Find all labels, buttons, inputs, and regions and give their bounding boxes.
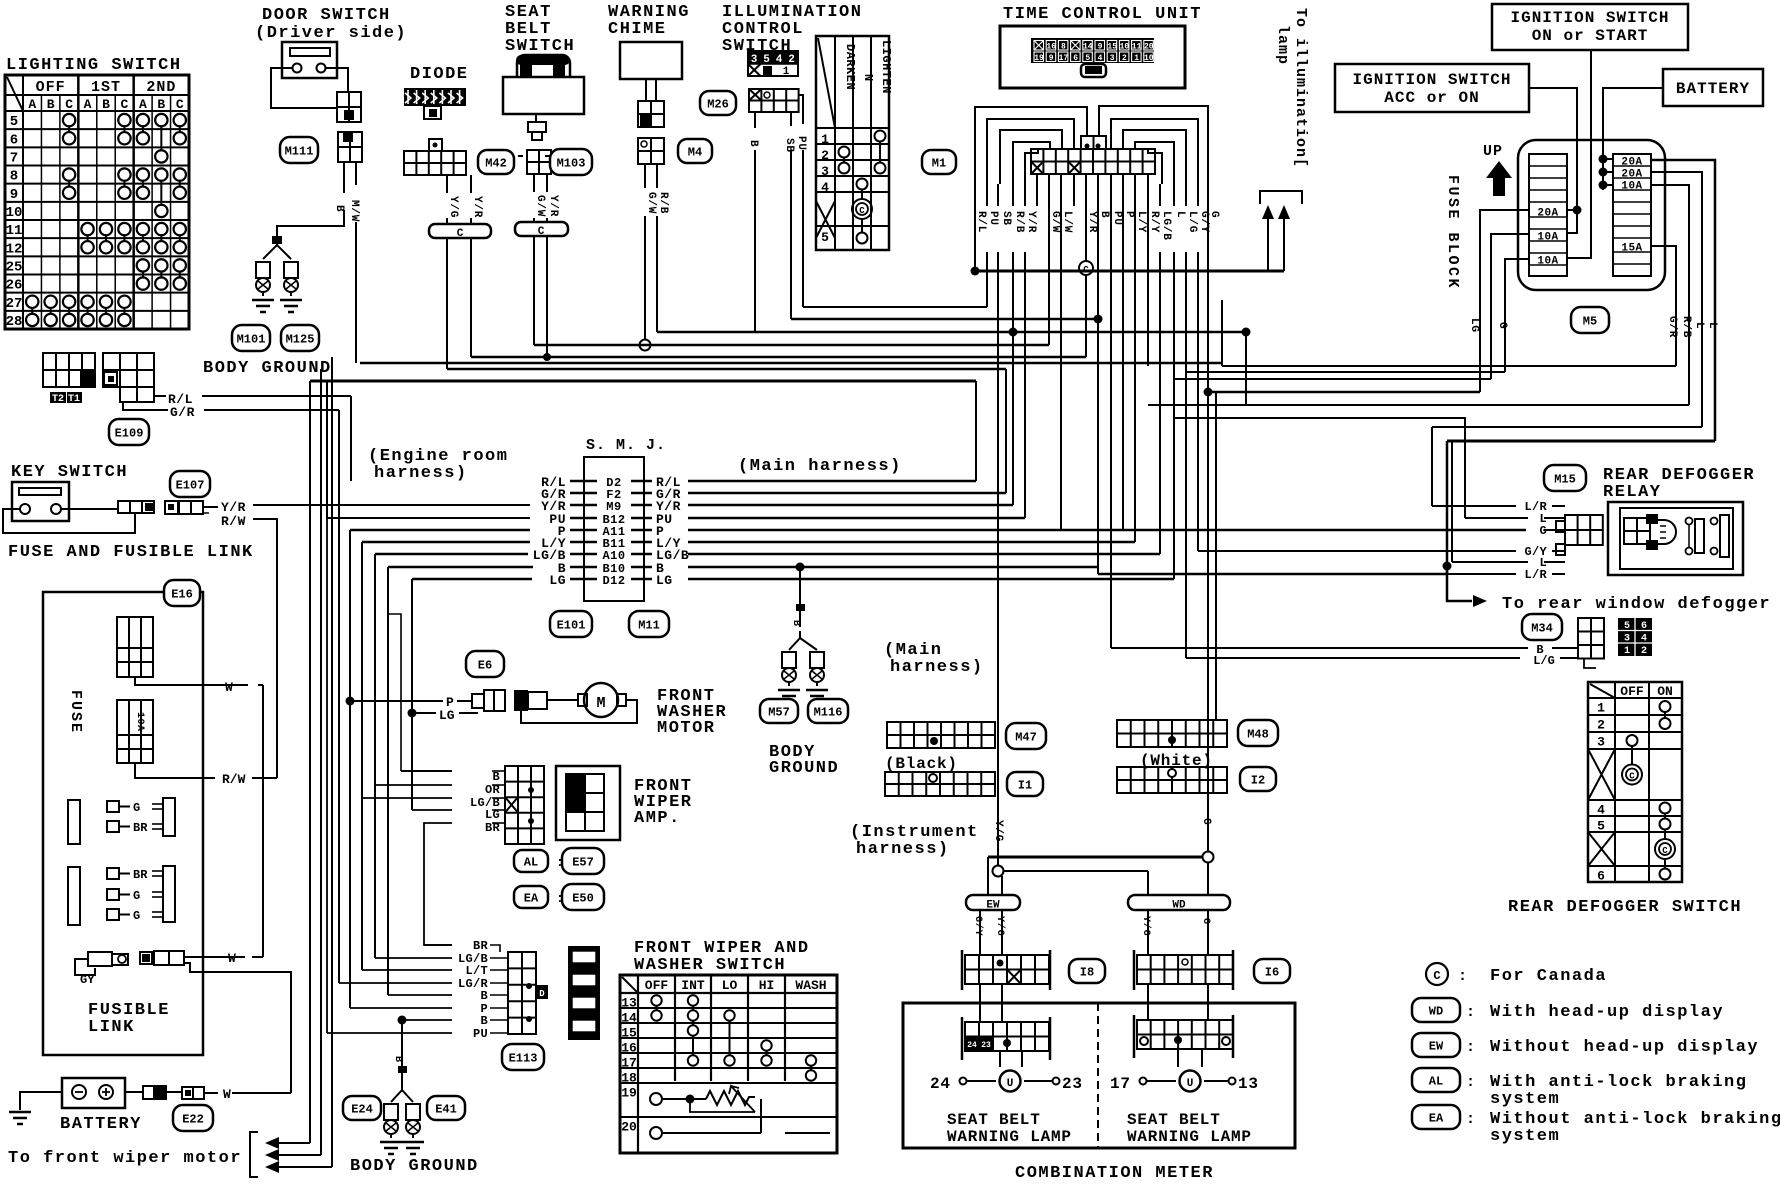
svg-text:20A: 20A	[1621, 169, 1642, 181]
illumination table	[816, 36, 889, 250]
svg-text:2: 2	[1597, 718, 1605, 733]
wire L relay	[1465, 517, 1528, 519]
svg-text:N: N	[861, 74, 875, 82]
svg-text:20: 20	[1144, 43, 1154, 52]
wire B run	[1097, 206, 1099, 567]
svg-text:DOOR SWITCH: DOOR SWITCH	[262, 6, 391, 25]
svg-text:EA: EA	[1429, 1111, 1444, 1125]
svg-text:M/W: M/W	[348, 200, 360, 222]
svg-text:lamp: lamp	[1274, 25, 1291, 65]
svg-text:3: 3	[1624, 634, 1630, 645]
svg-text:E109: E109	[115, 426, 144, 440]
legend WD	[1412, 998, 1460, 1022]
svg-text:IGNITION SWITCH: IGNITION SWITCH	[1510, 9, 1669, 27]
wire W vertical	[262, 685, 264, 957]
wire bracket left 3	[1013, 142, 1050, 184]
meter connector left	[961, 1017, 964, 1060]
wire S.M.J. right	[688, 504, 1013, 506]
TCU pin stubs	[1036, 174, 1038, 206]
wiper switch links	[656, 1006, 658, 1011]
wire L relay 2	[1452, 561, 1528, 563]
wire L run	[1173, 184, 1175, 206]
wire B bus y332	[657, 331, 1246, 333]
svg-text:RELAY: RELAY	[1603, 483, 1662, 502]
svg-text:6: 6	[1641, 621, 1647, 632]
door switch	[282, 42, 337, 78]
svg-text:G: G	[133, 889, 140, 903]
legend EA	[1412, 1105, 1460, 1129]
svg-text:16: 16	[621, 1041, 637, 1056]
svg-text:26: 26	[6, 278, 23, 294]
svg-text:4: 4	[821, 180, 829, 195]
svg-text:D: D	[539, 989, 545, 999]
svg-text:C: C	[1629, 772, 1635, 782]
svg-text:LG/B: LG/B	[1160, 211, 1172, 241]
svg-text:TIME CONTROL UNIT: TIME CONTROL UNIT	[1003, 5, 1202, 24]
svg-text:5: 5	[10, 114, 18, 130]
seat belt switch stem	[535, 114, 537, 122]
svg-text:LG: LG	[656, 573, 673, 588]
svg-text:L/W: L/W	[1061, 211, 1073, 233]
wire EW stubs	[987, 857, 989, 895]
svg-text:11: 11	[1132, 43, 1142, 52]
svg-text:C: C	[1433, 969, 1440, 983]
wire G run long	[1207, 106, 1209, 206]
wire B (illum)	[754, 112, 756, 128]
wire R/L run	[974, 107, 976, 206]
M34 pin block	[1618, 618, 1652, 656]
M34 connector	[1578, 618, 1604, 659]
svg-text:SWITCH: SWITCH	[505, 37, 575, 56]
svg-text:HI: HI	[759, 978, 775, 993]
wire Y/R (M103)	[546, 174, 548, 192]
wires I8 to meter	[979, 984, 981, 1022]
svg-text:M9: M9	[606, 500, 621, 514]
svg-text:9: 9	[1098, 43, 1103, 52]
oval M125	[281, 325, 319, 351]
wire battery down	[1603, 88, 1663, 157]
wiper amp connector	[505, 766, 544, 844]
wire Y/G bus y369	[447, 368, 1006, 370]
oval M48	[1238, 720, 1278, 746]
svg-text:PU: PU	[473, 1027, 488, 1041]
wire Y/R run 2	[1085, 206, 1087, 261]
wire ignition ON/START down	[1567, 50, 1591, 258]
svg-text:harness): harness)	[374, 464, 468, 483]
svg-text:E113: E113	[509, 1051, 538, 1065]
fuse column left	[1529, 154, 1567, 276]
key switch connector	[118, 501, 154, 513]
svg-text:BODY GROUND: BODY GROUND	[350, 1157, 479, 1176]
WD pill	[1128, 895, 1230, 910]
wire R/W from fuse	[135, 763, 215, 778]
svg-text:B: B	[102, 97, 110, 112]
wiper switch row19 resistor	[650, 1093, 662, 1105]
svg-text:C: C	[859, 206, 865, 216]
wire y871	[993, 866, 1004, 877]
TCU connector upper small	[1081, 136, 1106, 149]
wire R/Y run	[1147, 206, 1149, 366]
svg-text:20A: 20A	[1621, 157, 1642, 169]
svg-text:FUSE: FUSE	[67, 690, 84, 734]
svg-text:SEAT BELT: SEAT BELT	[1127, 1111, 1221, 1129]
svg-text:2ND: 2ND	[146, 79, 176, 96]
wire L/G run	[1185, 184, 1187, 206]
warning chime box	[620, 42, 682, 79]
svg-text:SEAT BELT: SEAT BELT	[947, 1111, 1041, 1129]
svg-text:BR: BR	[133, 821, 148, 835]
illumination switch connector 1	[748, 51, 798, 64]
wire bracket left 1	[987, 119, 1074, 184]
connector M48	[1117, 720, 1227, 747]
svg-text:G/Y: G/Y	[972, 916, 984, 936]
oval M111	[280, 137, 318, 163]
wire key switch to connector	[61, 508, 118, 510]
oval M47	[1006, 723, 1046, 749]
svg-text:24: 24	[930, 1075, 951, 1093]
battery box	[62, 1078, 125, 1108]
wire Y/R from E107	[253, 504, 530, 506]
svg-text:Y/R: Y/R	[547, 195, 559, 217]
svg-text:D12: D12	[602, 574, 625, 588]
svg-text::: :	[1466, 1111, 1475, 1128]
oval E6	[466, 651, 504, 677]
wires WD to I6	[1147, 910, 1149, 955]
svg-text::: :	[1466, 1074, 1475, 1091]
svg-text:I8: I8	[1080, 965, 1094, 979]
wire TCU center left	[975, 107, 1087, 271]
AL E57 ovals	[514, 850, 548, 872]
wire P run	[1122, 206, 1124, 530]
svg-text:(Main harness): (Main harness)	[738, 457, 902, 476]
wire G relay	[1544, 529, 1565, 531]
wire bracket right 1	[1111, 119, 1198, 184]
svg-text:12: 12	[6, 241, 23, 257]
oval M116	[808, 699, 848, 723]
wire relay L bus y427	[1432, 426, 1702, 428]
svg-text:1: 1	[783, 66, 790, 78]
connector I6	[1133, 950, 1136, 990]
wire LG/B left	[375, 553, 528, 555]
connector M47	[887, 722, 995, 748]
wire R/B (chime)	[656, 164, 658, 188]
wire bus y381 thick	[310, 380, 976, 383]
wire Y/R run 2b	[1085, 275, 1087, 357]
svg-text:G: G	[1200, 918, 1211, 925]
connector W out	[140, 952, 152, 964]
svg-text:11: 11	[6, 223, 23, 239]
ignition switch ACC box	[1335, 64, 1529, 112]
wires EW to I8	[979, 910, 981, 955]
svg-text:4: 4	[1098, 54, 1103, 63]
svg-text:LO: LO	[722, 978, 738, 993]
svg-text:B: B	[480, 989, 488, 1003]
wire M/W	[355, 162, 357, 185]
svg-text:20A: 20A	[1537, 208, 1558, 220]
svg-text:LG: LG	[1468, 318, 1480, 333]
svg-text:I2: I2	[1251, 773, 1265, 787]
wire to rear window defogger	[1447, 566, 1472, 601]
body ground split M57/M116	[789, 631, 800, 650]
wire B to L/R bottom	[1097, 567, 1099, 574]
svg-text:2: 2	[1122, 54, 1127, 63]
svg-text:Y/G: Y/G	[1140, 916, 1152, 936]
svg-text:AL: AL	[1429, 1074, 1443, 1088]
wire G fuse bus y372	[1186, 371, 1505, 373]
E113 label stubs	[490, 957, 508, 959]
svg-text:M57: M57	[768, 705, 790, 719]
oval I2	[1240, 767, 1276, 791]
svg-text:PU: PU	[1111, 211, 1123, 226]
label C circle on Y/R	[1079, 261, 1093, 275]
wire PU run 2	[1110, 206, 1112, 648]
wire 20A#2 to L	[1651, 172, 1702, 427]
wire G/Y relay	[1552, 550, 1565, 552]
oval E41	[427, 1096, 465, 1120]
svg-text:IGNITION SWITCH: IGNITION SWITCH	[1352, 71, 1511, 89]
svg-text:10: 10	[6, 205, 23, 221]
wire G/R riser x1222	[1221, 300, 1223, 366]
wire S.M.J. right	[688, 529, 1526, 531]
svg-text:M: M	[596, 695, 605, 712]
connector C pill (M42)	[429, 224, 491, 238]
meter connector right	[1133, 1015, 1136, 1058]
svg-text:M101: M101	[237, 332, 266, 346]
legend AL	[1412, 1068, 1460, 1092]
svg-text:E50: E50	[572, 891, 594, 905]
svg-text:KEY SWITCH: KEY SWITCH	[11, 463, 128, 482]
svg-text:E57: E57	[572, 855, 594, 869]
wire to illumination lamp 2	[1278, 205, 1290, 219]
wire G/R to SMJ	[123, 402, 168, 410]
wire LG fuse bus y392	[1208, 391, 1480, 394]
connector T2/T1	[43, 353, 95, 387]
wire L/G to M34	[1186, 657, 1520, 659]
svg-text:B: B	[1098, 211, 1110, 218]
svg-text:P: P	[1123, 211, 1135, 218]
svg-text:6: 6	[10, 132, 18, 148]
wire LG/R E113	[339, 982, 452, 984]
oval E24	[343, 1096, 381, 1120]
svg-text:1ST: 1ST	[91, 79, 121, 96]
wire B to body ground	[343, 162, 345, 193]
washer plug	[514, 690, 528, 711]
svg-text:EA: EA	[524, 891, 539, 905]
oval I8	[1069, 959, 1105, 983]
wiper switch circles	[651, 995, 661, 1005]
svg-text:7: 7	[10, 151, 18, 167]
wire P E113	[350, 1007, 452, 1009]
TCU main connector	[1031, 149, 1155, 174]
svg-text:8: 8	[1061, 43, 1066, 52]
wire bracket right 3	[1135, 142, 1174, 184]
svg-text:Y/R: Y/R	[1025, 211, 1037, 233]
svg-text:OFF: OFF	[36, 79, 66, 96]
svg-text:M15: M15	[1554, 472, 1576, 486]
wire bracket left 2	[1000, 130, 1062, 184]
svg-text:Y/R: Y/R	[221, 500, 246, 515]
oval M42	[478, 150, 514, 174]
key switch box	[12, 482, 69, 521]
svg-text:ON: ON	[1657, 684, 1673, 699]
wire Y/R down	[470, 238, 472, 357]
wire SB run	[997, 184, 999, 206]
wire B E113 2	[402, 1019, 452, 1021]
svg-text:10A: 10A	[134, 712, 145, 732]
wire W out 2	[184, 963, 291, 1093]
svg-text:ON or START: ON or START	[1532, 27, 1649, 45]
svg-text:WASHER SWITCH: WASHER SWITCH	[634, 956, 786, 975]
wire S.M.J. right	[688, 553, 1160, 555]
svg-text:M26: M26	[707, 97, 729, 111]
svg-text:B: B	[480, 1014, 488, 1028]
battery ground	[20, 1092, 62, 1110]
wire S.M.J. right	[688, 517, 1025, 519]
wire G fuse bus y379	[1174, 378, 1491, 380]
svg-text:system: system	[1490, 1127, 1560, 1146]
warning chime connector 2	[638, 138, 664, 164]
wire L/R relay top	[1431, 427, 1433, 506]
svg-text:M125: M125	[286, 332, 315, 346]
wire G down2	[1505, 259, 1528, 372]
wire Y/R down to junction	[546, 236, 548, 357]
E113 connector grid	[508, 952, 536, 1034]
wiper switch row20	[650, 1127, 662, 1139]
wire W from fuse	[135, 677, 248, 685]
svg-text:harness): harness)	[856, 840, 950, 859]
wire M/W bus y363	[360, 362, 1222, 365]
svg-text:G/W: G/W	[645, 192, 657, 214]
wire WD stubs	[1147, 871, 1149, 895]
wire L/Y left	[362, 541, 530, 543]
wire bracket left 4	[1025, 149, 1038, 184]
wire ACC to 10A	[1573, 206, 1582, 215]
svg-text:L: L	[1693, 322, 1705, 329]
wire LG to motor	[408, 709, 417, 718]
svg-text:R/B: R/B	[657, 192, 669, 214]
relay connector	[1565, 515, 1603, 545]
wiper amp box	[556, 766, 620, 840]
svg-text:10A: 10A	[1537, 256, 1558, 268]
svg-text:10A: 10A	[1621, 181, 1642, 193]
svg-text:For Canada: For Canada	[1490, 967, 1607, 986]
connector I1	[885, 772, 995, 796]
svg-text:16: 16	[1046, 43, 1056, 52]
time control unit box	[1000, 26, 1185, 88]
connector E107	[165, 501, 178, 514]
wire G/W run	[1048, 206, 1050, 345]
oval M57	[760, 699, 798, 723]
lighting switch table	[5, 75, 189, 329]
svg-text:L: L	[1706, 322, 1718, 329]
svg-text:G/W: G/W	[1049, 211, 1061, 233]
svg-text:U: U	[1007, 1078, 1014, 1090]
wire to front wiper motor 1	[265, 1137, 279, 1149]
wire B E113	[388, 994, 452, 996]
svg-text:Y/R: Y/R	[1086, 211, 1098, 233]
fuse 10A	[117, 700, 153, 763]
svg-text:19: 19	[1034, 54, 1044, 63]
svg-text:harness): harness)	[890, 658, 984, 677]
svg-text:SB: SB	[1000, 211, 1012, 226]
svg-text:T1: T1	[68, 394, 80, 405]
legend EW	[1412, 1033, 1460, 1057]
fusible link GY	[88, 952, 112, 966]
oval E113	[502, 1044, 544, 1070]
svg-text:M111: M111	[285, 144, 314, 158]
fuse box outline	[43, 592, 203, 1055]
svg-text:2: 2	[1641, 646, 1647, 657]
connector M42	[429, 139, 442, 151]
wire Y/R bus y357	[471, 356, 1086, 358]
svg-text:3: 3	[821, 164, 829, 179]
svg-text:M5: M5	[1583, 314, 1597, 328]
oval M4	[678, 139, 712, 163]
washer motor loop	[521, 700, 637, 723]
wire Y/G down	[446, 238, 448, 369]
svg-text:DARKEN: DARKEN	[843, 44, 857, 90]
svg-text:R/B: R/B	[1680, 316, 1692, 338]
wire S.M.J. right	[688, 541, 1135, 543]
wire S.M.J. right	[688, 480, 976, 482]
svg-text:BATTERY: BATTERY	[1676, 80, 1750, 98]
svg-text:17: 17	[1110, 1075, 1131, 1093]
svg-text:24: 24	[967, 1041, 977, 1050]
washer connector	[472, 694, 484, 708]
wire G/R fuse bus y366	[1222, 365, 1676, 367]
svg-text:UP: UP	[1483, 143, 1503, 160]
warning chime stem	[645, 79, 647, 101]
svg-text:INT: INT	[681, 978, 705, 993]
svg-text:A: A	[28, 97, 36, 112]
svg-text:U: U	[1187, 1078, 1194, 1090]
svg-text:13: 13	[621, 996, 637, 1011]
svg-text:OFF: OFF	[1620, 684, 1644, 699]
svg-text:R/W: R/W	[222, 772, 246, 787]
svg-text:10A: 10A	[1537, 232, 1558, 244]
wire W out 1	[184, 956, 245, 958]
svg-text:C: C	[65, 97, 73, 112]
wiper switch row19 tap	[690, 1099, 755, 1112]
svg-text:(Black): (Black)	[885, 755, 958, 773]
wire thick bus y271	[975, 270, 1284, 273]
oval M101	[232, 325, 270, 351]
connector E109 grid	[103, 353, 154, 387]
wire S.M.J. right	[688, 566, 1098, 568]
wire 20A#1 to L	[1651, 160, 1715, 441]
svg-text:14: 14	[621, 1011, 637, 1026]
svg-text:8: 8	[10, 169, 18, 185]
svg-text:C: C	[457, 228, 464, 240]
svg-text:T2: T2	[52, 394, 64, 405]
svg-text:L/G: L/G	[1186, 211, 1198, 233]
svg-text:10: 10	[1120, 43, 1130, 52]
wire Y/R run	[1024, 184, 1026, 206]
wire OR amp	[375, 784, 452, 786]
svg-text:GROUND: GROUND	[769, 759, 839, 778]
svg-text:M116: M116	[814, 705, 843, 719]
wire bracket right 4	[1148, 149, 1162, 184]
door switch connector	[337, 92, 361, 122]
svg-text:E101: E101	[557, 618, 586, 632]
svg-text:LINK: LINK	[88, 1018, 135, 1037]
svg-text:E24: E24	[351, 1102, 373, 1116]
svg-text:23: 23	[981, 1041, 991, 1050]
wire B to body ground 3	[398, 1066, 407, 1073]
svg-text:AL: AL	[524, 855, 538, 869]
svg-text:PU: PU	[795, 136, 807, 151]
wire SB bus y319	[791, 318, 1098, 320]
